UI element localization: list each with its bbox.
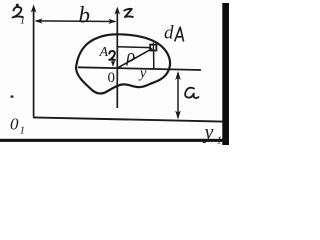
axis z (central vertical) (115, 7, 121, 109)
arrow: small z-coordinate pointer (111, 60, 115, 67)
svg-text:b: b (79, 3, 91, 28)
svg-text:y: y (203, 122, 214, 144)
svg-text:d: d (164, 23, 174, 44)
svg-text:1: 1 (20, 125, 26, 137)
svg-text:0: 0 (108, 70, 116, 86)
axis y (central horizontal) (78, 67, 201, 70)
scan speck left edge (11, 96, 14, 98)
axis y1 (bottom horizontal) (33, 117, 223, 121)
scan border line bottom (0, 139, 229, 142)
dimension line b (35, 18, 117, 24)
svg-text:1: 1 (217, 135, 223, 146)
svg-text:0: 0 (10, 115, 19, 134)
label a (185, 88, 198, 98)
wire: vertical line element down to y-axis (153, 51, 155, 69)
label dA (164, 23, 184, 44)
svg-text:ρ: ρ (126, 46, 136, 66)
element dA square (150, 43, 156, 51)
dimension line a (175, 71, 181, 120)
svg-text:1: 1 (20, 15, 26, 27)
label z (small, coordinate) (109, 51, 115, 60)
svg-text:A: A (99, 45, 109, 60)
label z (top) (124, 9, 133, 17)
wire: horizontal line z-axis to element (117, 46, 150, 49)
label O1 (10, 115, 25, 137)
radius line rho (origin to element) (118, 49, 153, 68)
paper background (0, 0, 229, 145)
area blob outline (76, 34, 170, 93)
svg-text:y: y (138, 66, 147, 82)
label y1 (203, 122, 223, 147)
axis z1 (left vertical) (31, 5, 37, 118)
scan border bar right (222, 3, 229, 145)
label z1 (with dot accent) (13, 4, 26, 27)
